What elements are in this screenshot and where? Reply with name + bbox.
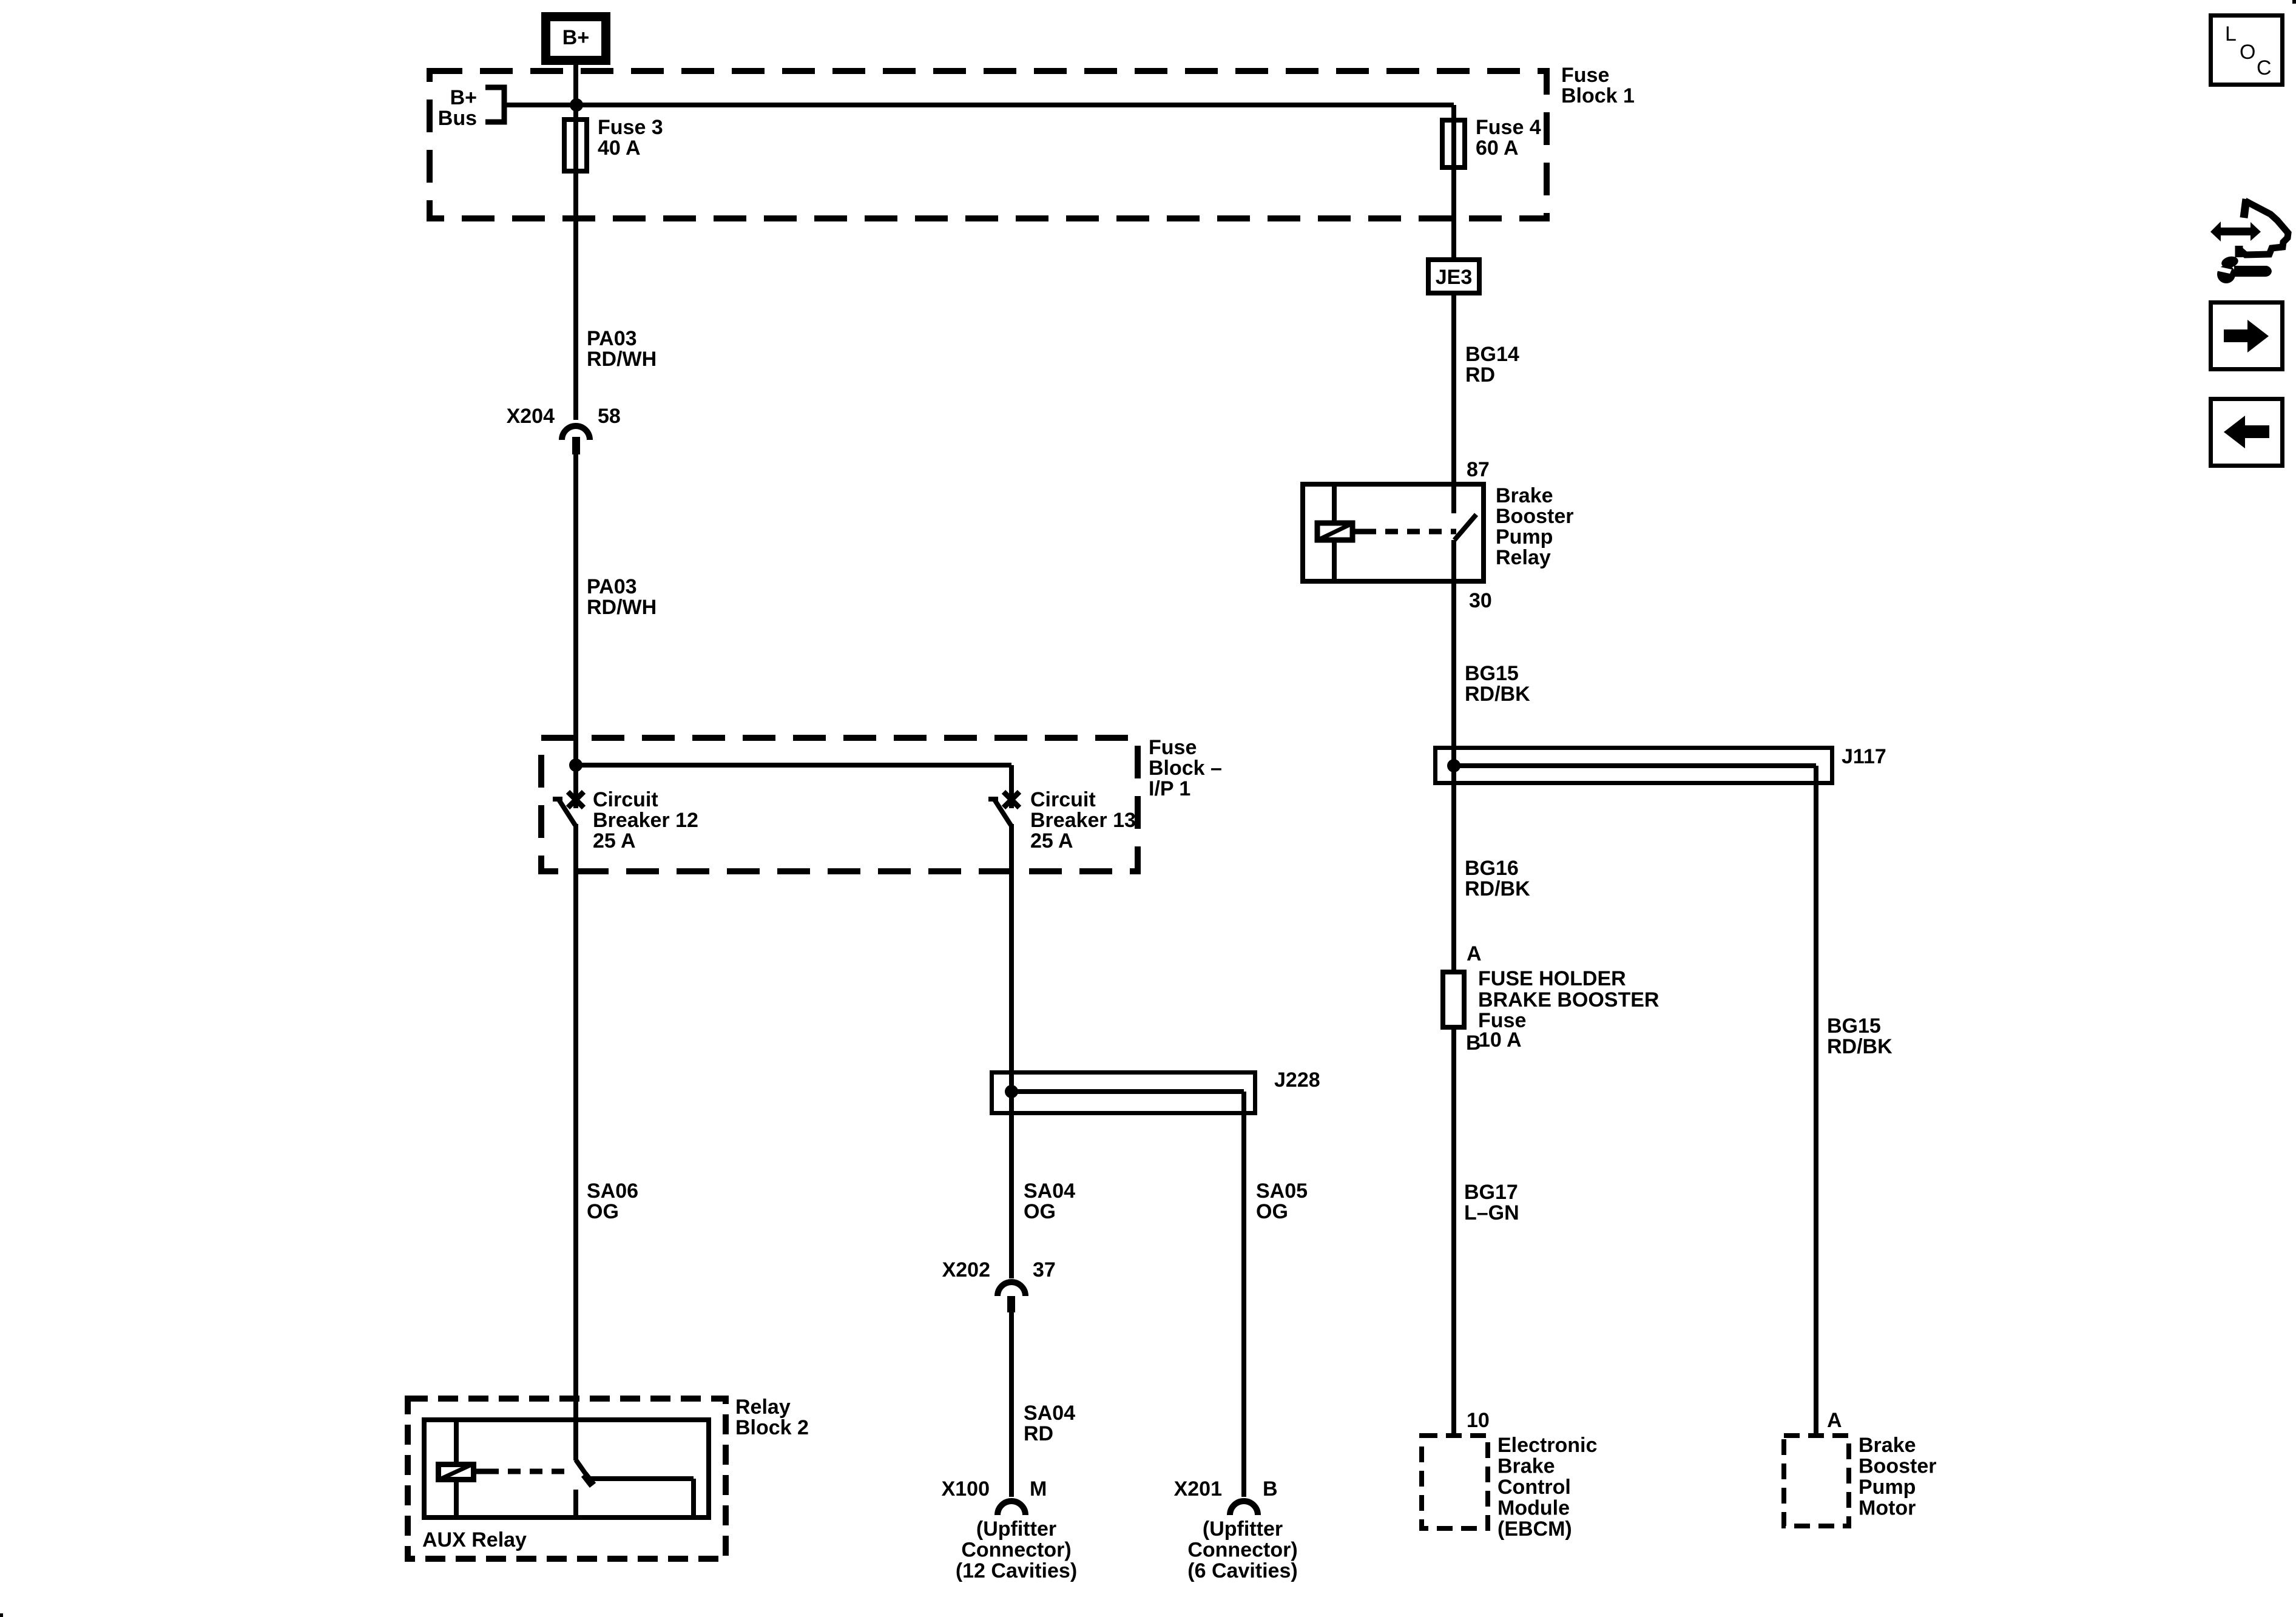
relay AUX Relay (422, 1420, 709, 1551)
label Relay Block 2 (735, 1396, 809, 1439)
svg-text:Brake: Brake (1859, 1434, 1916, 1457)
svg-text:BG14: BG14 (1465, 343, 1519, 366)
svg-text:Fuse 3: Fuse 3 (598, 116, 663, 139)
svg-text:(Upfitter: (Upfitter (976, 1517, 1056, 1541)
wire BG14 RD (1454, 295, 1519, 513)
corner mark top right (2292, 0, 2296, 4)
svg-text:X100: X100 (942, 1477, 990, 1501)
wire SA04 down through J228 to X202 (1009, 824, 1014, 1278)
svg-text:Relay: Relay (1496, 546, 1551, 569)
svg-text:X204: X204 (507, 405, 555, 428)
node B+ Bus (438, 86, 504, 130)
svg-text:C: C (2257, 56, 2272, 79)
svg-text:BG17: BG17 (1464, 1181, 1518, 1204)
svg-text:B+: B+ (562, 26, 589, 49)
svg-text:FUSE HOLDER: FUSE HOLDER (1478, 967, 1626, 990)
svg-text:87: 87 (1467, 458, 1490, 481)
svg-text:Fuse: Fuse (1561, 64, 1609, 87)
svg-text:(12 Cavities): (12 Cavities) (956, 1559, 1077, 1582)
svg-text:Bus: Bus (438, 107, 477, 130)
splice pack J228 (992, 1068, 1320, 1113)
svg-text:Booster: Booster (1859, 1455, 1936, 1478)
svg-text:Control: Control (1497, 1476, 1571, 1499)
svg-text:BG16: BG16 (1465, 857, 1519, 880)
svg-text:25 A: 25 A (1030, 829, 1073, 852)
svg-text:AUX Relay: AUX Relay (422, 1528, 527, 1551)
svg-text:Block 2: Block 2 (735, 1416, 809, 1439)
node Electronic Brake Control Module EBCM dashed box (1422, 1434, 1597, 1541)
svg-text:Circuit: Circuit (1030, 788, 1096, 811)
svg-text:BG15: BG15 (1827, 1014, 1881, 1038)
connector X201 pin B (1174, 1477, 1278, 1515)
svg-text:OG: OG (587, 1200, 619, 1223)
wire BG15 RD/BK branch to motor (1816, 766, 1893, 1433)
svg-text:Electronic: Electronic (1497, 1434, 1597, 1457)
circuit breaker 12 (553, 788, 698, 852)
svg-text:SA06: SA06 (587, 1180, 638, 1203)
svg-text:Block –: Block – (1149, 757, 1222, 780)
wire PA03 RD/WH upper label (587, 327, 657, 371)
svg-text:60 A: 60 A (1476, 137, 1519, 160)
label SA04 OG (1024, 1180, 1075, 1223)
svg-text:Pump: Pump (1496, 525, 1553, 549)
svg-text:I/P 1: I/P 1 (1149, 777, 1190, 800)
svg-text:L: L (2225, 22, 2237, 46)
svg-text:Pump: Pump (1859, 1476, 1916, 1499)
svg-text:RD/BK: RD/BK (1465, 683, 1530, 706)
node Brake Booster Pump Motor dashed box (1784, 1434, 1936, 1526)
svg-text:SA05: SA05 (1256, 1180, 1308, 1203)
svg-text:OG: OG (1256, 1200, 1288, 1223)
label BG16 RD/BK (1465, 857, 1530, 900)
svg-text:Connector): Connector) (961, 1539, 1071, 1562)
wire PA03 RD/WH lower segment (573, 454, 578, 765)
svg-text:Fuse: Fuse (1149, 736, 1197, 759)
svg-text:37: 37 (1033, 1258, 1056, 1281)
svg-text:30: 30 (1469, 589, 1492, 612)
connector X204 pin 58 (507, 405, 621, 454)
wire stub to CB12 (573, 765, 578, 808)
svg-text:10 A: 10 A (1479, 1028, 1522, 1052)
wire SA04 RD segment (1009, 1312, 1014, 1497)
wire stub to CB13 (1009, 765, 1014, 808)
wire BG15 RD/BK (1454, 540, 1530, 972)
svg-text:(Upfitter: (Upfitter (1203, 1517, 1283, 1541)
fuse Fuse 4 60 A (1442, 105, 1541, 259)
svg-text:OG: OG (1024, 1200, 1056, 1223)
svg-text:A: A (1827, 1409, 1842, 1432)
wire BG17 L-GN (1454, 1027, 1519, 1433)
svg-text:J228: J228 (1274, 1068, 1320, 1092)
svg-text:(EBCM): (EBCM) (1497, 1517, 1572, 1541)
svg-text:Block 1: Block 1 (1561, 84, 1635, 107)
svg-text:L–GN: L–GN (1464, 1201, 1519, 1224)
svg-text:Motor: Motor (1859, 1497, 1916, 1520)
label Fuse Block - I/P 1 (1149, 736, 1222, 800)
svg-text:RD/BK: RD/BK (1465, 877, 1530, 900)
node Upfitter Connector 6 Cavities (1187, 1517, 1297, 1582)
svg-text:SA04: SA04 (1024, 1402, 1075, 1425)
circuit breaker 13 (988, 788, 1136, 852)
svg-text:RD: RD (1465, 363, 1495, 387)
fuse block 1 dashed box (430, 71, 1547, 218)
junction B+ bus (570, 98, 583, 112)
svg-text:PA03: PA03 (587, 327, 637, 350)
junction I/P feed (569, 758, 582, 772)
svg-text:25 A: 25 A (593, 829, 636, 852)
svg-text:Fuse 4: Fuse 4 (1476, 116, 1541, 139)
svg-text:O: O (2240, 41, 2255, 64)
splice pack J117 (1436, 745, 1886, 783)
fuse FUSE HOLDER BRAKE BOOSTER 10 A (1443, 967, 1659, 1052)
icon service vehicle with wrench (2210, 199, 2288, 283)
svg-text:PA03: PA03 (587, 575, 637, 598)
wire SA06 down to relay block (573, 824, 578, 1460)
svg-text:X202: X202 (942, 1258, 990, 1281)
svg-text:Connector): Connector) (1187, 1539, 1297, 1562)
svg-text:Relay: Relay (735, 1396, 791, 1419)
svg-text:M: M (1030, 1477, 1047, 1501)
svg-text:BG15: BG15 (1465, 662, 1519, 685)
svg-text:Breaker 13: Breaker 13 (1030, 809, 1136, 832)
svg-text:Booster: Booster (1496, 505, 1573, 528)
svg-text:Module: Module (1497, 1497, 1570, 1520)
svg-text:Brake: Brake (1497, 1455, 1555, 1478)
svg-text:RD/WH: RD/WH (587, 348, 657, 371)
icon arrow back box (2211, 399, 2283, 466)
label SA06 OG (587, 1180, 638, 1223)
svg-text:Brake: Brake (1496, 484, 1553, 507)
wire I/P bus horizontal (576, 763, 1011, 768)
label SA05 OG (1256, 1180, 1308, 1223)
label Fuse Block 1 (1561, 64, 1635, 107)
svg-text:B: B (1466, 1031, 1481, 1055)
node Upfitter Connector 12 Cavities (956, 1517, 1077, 1582)
connector X100 pin M (942, 1477, 1047, 1515)
wire B+ bus horizontal (504, 103, 1454, 107)
svg-text:B+: B+ (450, 86, 477, 109)
fuse Fuse 3 40 A (564, 116, 663, 171)
corner mark bottom left (0, 1613, 3, 1617)
svg-text:RD/WH: RD/WH (587, 596, 657, 619)
svg-text:RD/BK: RD/BK (1827, 1035, 1893, 1058)
svg-text:Breaker 12: Breaker 12 (593, 809, 698, 832)
svg-text:BRAKE BOOSTER: BRAKE BOOSTER (1478, 988, 1659, 1011)
svg-text:A: A (1467, 942, 1482, 965)
node JE3 (1428, 260, 1479, 293)
svg-text:B: B (1263, 1477, 1278, 1501)
svg-text:SA04: SA04 (1024, 1180, 1075, 1203)
svg-text:J117: J117 (1842, 745, 1886, 768)
relay block 2 dashed box (408, 1399, 726, 1559)
svg-text:10: 10 (1467, 1409, 1490, 1432)
icon arrow next box (2211, 303, 2283, 370)
relay Brake Booster Pump Relay (1303, 484, 1573, 581)
wire SA05 branch down to X201 (1241, 1092, 1246, 1497)
svg-text:RD: RD (1024, 1422, 1053, 1445)
svg-text:Circuit: Circuit (593, 788, 658, 811)
terminal B+ (546, 17, 606, 61)
svg-text:40 A: 40 A (598, 137, 641, 160)
svg-text:JE3: JE3 (1436, 266, 1473, 289)
node LOC box (2211, 16, 2283, 85)
svg-text:58: 58 (598, 405, 621, 428)
connector X202 pin 37 (942, 1258, 1056, 1312)
svg-text:X201: X201 (1174, 1477, 1222, 1501)
fuse block I/P 1 dashed box (541, 738, 1138, 871)
wire B+ feed down (573, 62, 578, 420)
svg-text:(6 Cavities): (6 Cavities) (1187, 1559, 1297, 1582)
